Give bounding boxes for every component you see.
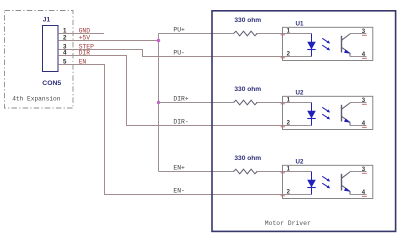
wire: DIR+ row to resistor R2 [159, 102, 283, 104]
svg-text:PU-: PU- [173, 50, 185, 57]
pin 2 (cathode) [283, 194, 312, 196]
opto-isolator U1 (row 1) [281, 21, 373, 61]
pin 4 (emitter) [350, 194, 367, 196]
opto U2 body outline [283, 96, 373, 129]
junction node: bus/DIR+ [157, 101, 160, 104]
pin 3 (collector) [351, 102, 367, 104]
resistor R1 330 ohm [234, 31, 258, 36]
LED emitter diode [311, 103, 313, 126]
svg-text:330 ohm: 330 ohm [234, 86, 261, 93]
wire: pin4 DIR to DIR- [58, 56, 282, 126]
svg-text:Motor Driver: Motor Driver [265, 220, 311, 227]
LED emitter diode [311, 172, 313, 195]
svg-text:DIR-: DIR- [173, 119, 188, 126]
pin 2 (cathode) [283, 56, 312, 58]
svg-text:330 ohm: 330 ohm [234, 155, 261, 162]
pin 1 (anode) [283, 102, 312, 104]
pin 1 (anode) [283, 33, 312, 35]
wire: pin1 GND stub [58, 33, 104, 35]
svg-text:J1: J1 [43, 16, 51, 23]
dashed expansion boundary box [5, 11, 74, 109]
svg-text:U1: U1 [296, 21, 304, 28]
resistor R2 330 ohm [234, 100, 258, 105]
connector J1 (CON5) [42, 16, 61, 87]
pin 4 (emitter) [350, 125, 367, 127]
pin 1 (anode) [283, 171, 312, 173]
junction node: +5V/bus [157, 39, 160, 42]
svg-text:EN+: EN+ [173, 165, 185, 172]
opto U2 body outline [283, 165, 373, 198]
wire: +5V vertical bus [158, 34, 160, 172]
opto U1 body outline [283, 27, 373, 60]
pin 3 (collector) [351, 33, 367, 35]
phototransistor [341, 174, 343, 191]
svg-text:4th Expansion: 4th Expansion [12, 96, 61, 103]
wire: PU+ row to resistor R1 [159, 33, 283, 35]
resistor R3 330 ohm [234, 169, 258, 174]
phototransistor [341, 36, 343, 53]
light coupling arrows [322, 107, 328, 111]
LED emitter diode [311, 34, 313, 57]
light coupling arrows [322, 176, 328, 180]
wire: pin3 STEP to PU- [58, 50, 282, 57]
phototransistor [341, 105, 343, 122]
wire: EN+ row to resistor R3 [159, 171, 283, 173]
pin 4 (emitter) [350, 56, 367, 58]
light coupling arrows [322, 38, 328, 42]
svg-text:DIR+: DIR+ [173, 96, 189, 103]
opto-isolator U2 (row 2) [281, 90, 373, 130]
svg-text:CON5: CON5 [42, 80, 61, 87]
svg-text:U2: U2 [296, 90, 304, 97]
svg-text:PU+: PU+ [173, 27, 185, 34]
Motor Driver block box [212, 11, 396, 232]
svg-text:EN-: EN- [173, 188, 185, 195]
wire: pin2 +5V to bus [58, 40, 158, 42]
opto-isolator U2 (row 3) [281, 159, 373, 199]
svg-text:U2: U2 [296, 159, 304, 166]
svg-text:330 ohm: 330 ohm [234, 17, 261, 24]
pin 3 (collector) [351, 171, 367, 173]
pin 2 (cathode) [283, 125, 312, 127]
wire: pin5 EN to EN- [58, 65, 282, 195]
